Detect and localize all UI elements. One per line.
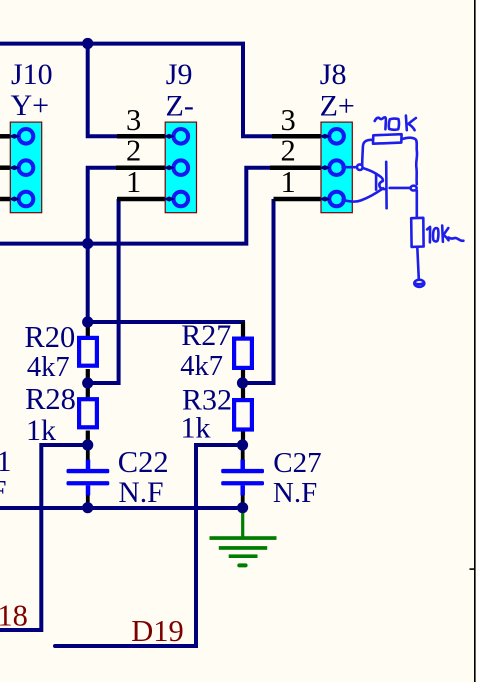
resistor R32 — [234, 400, 252, 429]
junction C27 ground — [237, 502, 248, 513]
hand wire loop down to resistor RH2 — [415, 191, 418, 217]
sheet border right — [474, 0, 476, 682]
wire from top bus junction down to J9 pin3 — [88, 42, 118, 137]
svg-text:D19: D19 — [131, 614, 184, 648]
hand resistor RH2 10k vertical — [411, 218, 423, 247]
junction R28/C22 — [82, 439, 93, 450]
transistor Q arrow scrawl — [377, 174, 386, 189]
hand text 10k right: k — [441, 226, 444, 242]
svg-text:N.F: N.F — [273, 477, 317, 509]
transistor Q base bar — [385, 162, 388, 208]
svg-text:2: 2 — [126, 134, 141, 168]
svg-text:N.F: N.F — [0, 475, 7, 507]
svg-text:C22: C22 — [118, 445, 169, 479]
svg-text:J8: J8 — [320, 58, 347, 91]
junction R32/C27 — [237, 439, 248, 450]
wire J9 pin2 left and down to R20 top — [88, 168, 117, 322]
connector J10 — [9, 122, 42, 213]
junction R20 top — [82, 316, 93, 327]
svg-text:R28: R28 — [25, 382, 76, 416]
resistor R27 — [234, 339, 252, 368]
svg-text:1: 1 — [281, 165, 296, 199]
resistor R27 leads — [241, 322, 245, 383]
wire top bus to J8 pin3 — [0, 44, 273, 137]
svg-text:R20: R20 — [24, 320, 75, 354]
hand terminal blob — [414, 280, 424, 287]
svg-text:3: 3 — [126, 103, 141, 137]
capacitor C27 leads — [241, 445, 245, 508]
wire R20 top to R27 top — [88, 320, 245, 324]
capacitor C27 — [221, 460, 264, 496]
svg-text:C21: C21 — [0, 445, 12, 478]
svg-text:Y+: Y+ — [11, 89, 50, 122]
hand wire resistor right to collector — [402, 138, 417, 184]
pin lines J8 — [270, 136, 328, 199]
wire ground bus — [0, 506, 243, 510]
ground — [210, 508, 277, 567]
svg-text:1k: 1k — [181, 412, 211, 445]
hand wire pin2 to base loop — [343, 166, 357, 169]
hand wire collector horizontal — [390, 187, 411, 190]
svg-text:J9: J9 — [166, 58, 193, 91]
resistor R32 leads — [241, 383, 245, 445]
wire R32 bottom to D19 stub — [55, 445, 243, 646]
resistor R20 — [79, 338, 97, 366]
junction C22 ground — [82, 502, 93, 513]
svg-text:C27: C27 — [273, 447, 321, 479]
sheet border tick — [470, 568, 475, 570]
pin lines J10 — [0, 136, 13, 199]
hand text 10k right: 1 — [427, 227, 430, 242]
hand wire resistor to loop left link — [362, 140, 373, 165]
resistor R20 leads — [86, 322, 90, 383]
hand collector loop — [411, 186, 417, 191]
hand resistor RH1 10k horizontal — [373, 134, 402, 144]
svg-text:N.F: N.F — [118, 477, 163, 509]
hand text 10k top: 0 — [389, 119, 399, 130]
pin lines J9 — [116, 136, 173, 199]
junction R27/R32 — [237, 377, 248, 388]
svg-text:1: 1 — [126, 165, 141, 199]
wire mid bus to J8 pin2 — [0, 168, 271, 244]
svg-text:4k7: 4k7 — [27, 352, 70, 383]
capacitor C22 — [67, 460, 110, 496]
svg-text:2: 2 — [281, 134, 296, 168]
junction top bus — [82, 38, 93, 49]
svg-text:Z+: Z+ — [320, 89, 355, 122]
junction mid bus — [82, 238, 93, 249]
wire J9 pin1 down to R20/R28 junction — [88, 199, 121, 383]
resistor R28 — [79, 399, 97, 427]
hand base loop — [357, 164, 363, 170]
hand text 10k top: 1 — [375, 117, 386, 129]
capacitor C22 leads — [86, 445, 90, 508]
hand wire pin1 to emitter — [343, 188, 384, 201]
hand squiggle tail — [449, 238, 464, 241]
svg-text:J10: J10 — [11, 58, 53, 91]
svg-text:1k: 1k — [26, 414, 56, 447]
hand wire loop to base — [363, 168, 377, 174]
annotation: hand-drawn transistor circuit — [343, 116, 464, 287]
connector J9 — [163, 122, 196, 213]
svg-text:3: 3 — [281, 103, 296, 137]
hand text 10k top: k — [405, 116, 408, 131]
svg-text:Z-: Z- — [166, 89, 194, 122]
hand wire RH2 bottom lead — [417, 247, 419, 279]
resistor R28 leads — [86, 383, 90, 445]
svg-text:D18: D18 — [0, 599, 28, 633]
wire R28 bottom to D18 exit left — [0, 445, 88, 630]
junction R20/R28 — [82, 377, 93, 388]
wire J8 pin1 down to R27/R32 junction — [243, 199, 276, 383]
svg-text:R27: R27 — [181, 319, 231, 352]
svg-text:4k7: 4k7 — [180, 351, 223, 382]
transistor Q inner bar — [375, 174, 378, 189]
hand text 10k right: 0 — [433, 228, 438, 241]
connector J8 — [319, 122, 352, 213]
